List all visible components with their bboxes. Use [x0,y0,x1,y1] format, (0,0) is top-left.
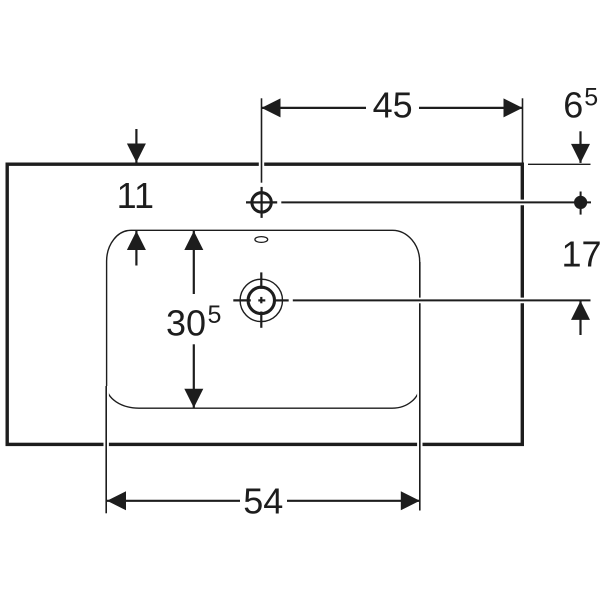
dimension 11 arrows [127,129,146,266]
svg-text:17: 17 [561,234,600,275]
extension line bowl left (54 left) [103,386,108,513]
drain [233,272,288,327]
dimension 45 label [366,85,419,126]
dimension 17 arrow [571,301,590,335]
tap hole [246,187,277,218]
countertop outline [7,164,522,444]
dimension 6.5 label [563,83,598,125]
extension line right edge (45 right) [522,98,524,164]
svg-text:54: 54 [243,480,283,521]
dimension 54 line [107,491,420,510]
dimension 54 label [240,480,287,521]
dot marker (6.5/17 shared end) [574,192,587,215]
svg-text:11: 11 [117,175,154,216]
dimension 11 label [117,175,154,216]
dimension 30.5 label [166,301,221,343]
overflow slot [255,237,268,243]
extension line tap hole (45 left) [259,98,264,182]
dimension 6.5 arrow [571,131,590,163]
dimension 30.5 line [184,231,203,408]
dimension 17 label [561,234,600,275]
dimension 45 line [262,98,523,117]
svg-text:45: 45 [373,85,413,126]
tap hole centerline horizontal to dot [281,200,591,206]
svg-text:5: 5 [584,83,598,111]
basin bowl outline [107,230,420,408]
svg-text:6: 6 [563,84,583,125]
svg-text:30: 30 [166,303,206,344]
svg-text:5: 5 [208,301,222,329]
drain centerline horizontal to right [293,298,591,304]
extension line top edge right stub (6.5) [528,163,591,165]
extension line bowl right (54 right) [417,262,422,511]
